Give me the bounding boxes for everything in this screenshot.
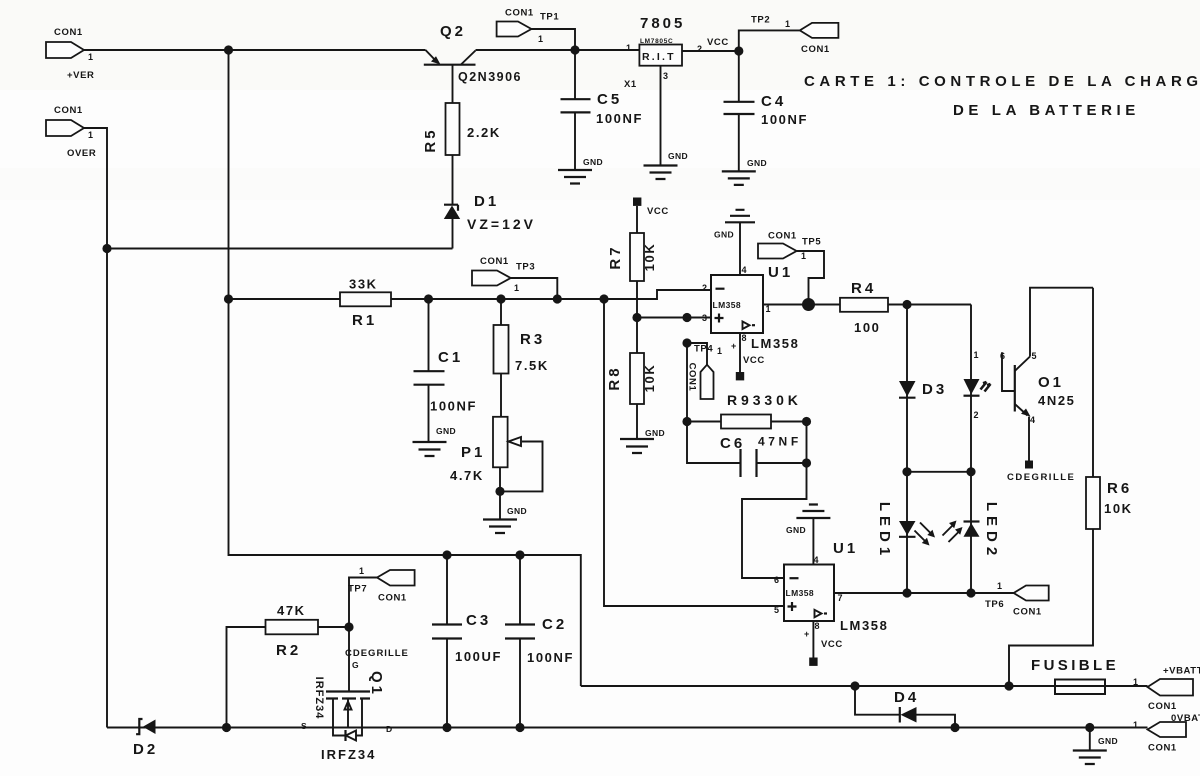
wire C6 right node to op-amp pin6 — [742, 463, 807, 578]
svg-text:VCC: VCC — [647, 206, 669, 217]
svg-text:C5: C5 — [597, 91, 622, 108]
svg-text:GND: GND — [583, 157, 603, 167]
junction node R9 right — [802, 417, 811, 426]
svg-text:7805: 7805 — [640, 15, 685, 32]
optocoupler O1 4N25 — [1000, 288, 1093, 483]
svg-text:D1: D1 — [474, 193, 499, 210]
junction node P1 wiper — [495, 487, 504, 496]
wire +VER to Q2 emitter — [84, 49, 426, 51]
junction node C2 bottom — [515, 723, 524, 732]
svg-text:TP5: TP5 — [802, 237, 821, 248]
svg-text:LM358: LM358 — [840, 618, 888, 633]
svg-text:1: 1 — [1133, 720, 1138, 730]
svg-text:100NF: 100NF — [430, 399, 477, 414]
resistor R1 — [340, 277, 391, 330]
power VCC square above R7 — [633, 198, 669, 218]
svg-text:CON1: CON1 — [505, 8, 534, 19]
svg-text:GND: GND — [436, 426, 456, 436]
wire U1 bottom pin7 output row — [834, 592, 1014, 594]
svg-text:R9330K: R9330K — [727, 392, 802, 408]
inverted ground above U1 top — [714, 210, 755, 240]
svg-text:IRFZ34: IRFZ34 — [321, 747, 376, 762]
svg-text:47NF: 47NF — [758, 435, 802, 449]
svg-text:8: 8 — [815, 621, 820, 631]
svg-text:CON1: CON1 — [768, 231, 797, 242]
svg-text:GND: GND — [747, 158, 767, 168]
svg-text:1: 1 — [801, 251, 806, 261]
ground below R8 — [620, 428, 665, 453]
junction node R2 left bottom — [222, 723, 231, 732]
svg-text:IRFZ34: IRFZ34 — [313, 677, 325, 720]
svg-text:+VER: +VER — [67, 70, 94, 81]
junction node R3 top — [496, 294, 505, 303]
svg-text:CON1: CON1 — [480, 256, 509, 267]
svg-text:+: + — [731, 341, 736, 351]
svg-text:1: 1 — [785, 19, 790, 29]
ground below C1 — [413, 426, 457, 456]
inverted ground above U1 bottom — [786, 505, 830, 536]
svg-text:R.I.T: R.I.T — [642, 51, 676, 63]
junction node C2 top — [515, 550, 524, 559]
resistor R6 — [1009, 288, 1133, 686]
resistor R8 — [606, 318, 657, 440]
svg-text:4.7K: 4.7K — [450, 468, 484, 483]
testpoint TP1 connector CON1 — [497, 8, 575, 51]
diode D1 (zener VZ=12V) — [444, 193, 536, 249]
svg-text:1: 1 — [766, 304, 771, 314]
svg-text:3: 3 — [663, 71, 668, 81]
junction node TP4 branch — [682, 338, 691, 347]
svg-text:Q2N3906: Q2N3906 — [458, 70, 522, 84]
wire D1 anode row — [107, 248, 453, 250]
wire U1 pin8 to VCC square — [731, 333, 765, 380]
svg-text:VCC: VCC — [707, 37, 729, 48]
potentiometer P1 — [450, 417, 543, 520]
svg-text:TP2: TP2 — [751, 15, 770, 26]
svg-text:100UF: 100UF — [455, 649, 502, 664]
junction node opto LED bottom — [966, 467, 975, 476]
junction node main/R1 — [224, 294, 233, 303]
svg-text:CON1: CON1 — [1013, 607, 1042, 618]
svg-text:CARTE 1: CONTROLE DE LA CHARGE: CARTE 1: CONTROLE DE LA CHARGE — [804, 73, 1200, 90]
resistor R5 — [422, 103, 501, 204]
svg-text:GND: GND — [714, 230, 734, 240]
LED LED1 — [876, 472, 935, 593]
svg-text:R3: R3 — [520, 331, 545, 348]
wire U1 pin1 output — [763, 304, 809, 306]
svg-text:2.2K: 2.2K — [467, 125, 501, 140]
wire 7805 pin3 to ground — [660, 66, 662, 166]
wire main vertical from +VER down to C3/C2 rail — [229, 50, 581, 686]
svg-text:10K: 10K — [1104, 501, 1133, 516]
wire op-amp pin3 row — [637, 317, 711, 319]
svg-text:CON1: CON1 — [54, 27, 83, 38]
testpoint TP6 connector CON1 — [985, 581, 1049, 618]
junction node R7/R8 — [632, 313, 641, 322]
optocoupler LED branch — [964, 305, 991, 472]
svg-text:4: 4 — [1030, 415, 1035, 425]
diode D4 — [855, 686, 955, 728]
resistor R9 330K — [687, 392, 807, 429]
svg-text:TP7: TP7 — [348, 584, 367, 595]
svg-text:7.5K: 7.5K — [515, 358, 549, 373]
wire U1 bottom pin8 to VCC square — [804, 621, 843, 666]
ground below C4 — [722, 158, 767, 185]
svg-text:CON1: CON1 — [686, 363, 697, 392]
testpoint TP5 connector CON1 — [758, 231, 824, 305]
capacitor C2 — [505, 555, 574, 728]
svg-text:TP4: TP4 — [694, 344, 713, 355]
svg-text:1: 1 — [974, 350, 979, 360]
junction node C3 top — [442, 550, 451, 559]
svg-text:GND: GND — [645, 428, 665, 438]
junction node R4/D3 — [902, 300, 911, 309]
junction node OVER/D1 row — [102, 244, 111, 253]
svg-text:1: 1 — [626, 43, 631, 53]
svg-text:6: 6 — [1000, 351, 1005, 361]
svg-text:3: 3 — [702, 313, 707, 323]
svg-text:C2: C2 — [542, 616, 567, 633]
capacitor C6 — [687, 422, 807, 478]
svg-text:C6: C6 — [720, 435, 745, 452]
svg-text:P1: P1 — [461, 444, 485, 461]
svg-text:100NF: 100NF — [761, 112, 808, 127]
wire TP4 node down to R9 — [686, 343, 688, 422]
svg-text:U1: U1 — [833, 540, 858, 557]
svg-text:100: 100 — [854, 320, 881, 335]
svg-text:LM7805C: LM7805C — [640, 38, 673, 45]
resistor R3 — [494, 299, 549, 417]
svg-text:8: 8 — [742, 333, 747, 343]
svg-text:CON1: CON1 — [378, 593, 407, 604]
connector CON1 0VBATT — [1133, 713, 1200, 754]
svg-text:4: 4 — [742, 265, 747, 275]
svg-text:CON1: CON1 — [54, 105, 83, 116]
svg-text:CDEGRILLE: CDEGRILLE — [345, 648, 409, 659]
resistor R7 — [607, 206, 657, 318]
svg-text:R2: R2 — [276, 642, 301, 659]
svg-text:S: S — [301, 721, 307, 731]
ground below 7805 — [644, 151, 689, 179]
wire OVER down left side to bottom rail — [84, 128, 107, 728]
svg-text:FUSIBLE: FUSIBLE — [1031, 657, 1119, 674]
junction node LED1 bottom — [902, 588, 911, 597]
junction node C3 bottom — [442, 723, 451, 732]
svg-text:C4: C4 — [761, 93, 786, 110]
ground at 0VBATT rail — [1073, 728, 1118, 765]
junction node R6 net/fuse rail — [1004, 681, 1013, 690]
fuse FUSIBLE — [1031, 657, 1119, 694]
svg-text:VCC: VCC — [743, 355, 765, 366]
svg-text:47K: 47K — [277, 603, 306, 618]
svg-text:C3: C3 — [466, 612, 491, 629]
svg-text:TP1: TP1 — [540, 12, 559, 23]
svg-text:GND: GND — [786, 525, 806, 535]
svg-text:7: 7 — [838, 593, 843, 603]
op-amp U1 (bottom) LM358 — [774, 540, 888, 633]
svg-text:TP3: TP3 — [516, 262, 535, 273]
testpoint TP7 connector CON1 — [348, 566, 415, 627]
svg-text:LM358: LM358 — [713, 300, 741, 310]
junction node R9 left — [682, 417, 691, 426]
diode D3 — [899, 305, 947, 472]
svg-text:CON1: CON1 — [1148, 743, 1177, 754]
svg-text:VCC: VCC — [821, 639, 843, 650]
junction node U1 output/TP5 — [802, 298, 815, 311]
svg-text:+: + — [804, 629, 809, 639]
svg-text:2: 2 — [697, 44, 702, 54]
junction node pin5 branch — [599, 294, 608, 303]
wire Q2 collector to 7805 — [476, 49, 640, 51]
LED LED2 — [943, 472, 1001, 593]
ground below P1 — [483, 506, 527, 533]
svg-text:DE LA BATTERIE: DE LA BATTERIE — [953, 102, 1140, 119]
svg-text:33K: 33K — [349, 277, 378, 292]
svg-text:100NF: 100NF — [596, 111, 643, 126]
svg-text:LM358: LM358 — [751, 336, 799, 351]
capacitor C4 — [724, 51, 809, 171]
capacitor C5 — [561, 50, 644, 170]
wire U1 bottom pin4 to inverted ground — [812, 518, 814, 565]
svg-text:R4: R4 — [851, 280, 876, 297]
svg-text:X1: X1 — [624, 79, 637, 90]
connector CON1 +VBATT — [1133, 666, 1200, 713]
svg-text:1: 1 — [88, 130, 93, 140]
junction node +VER/main — [224, 45, 233, 54]
wire 7805 pin2 VCC — [682, 37, 739, 51]
svg-text:5: 5 — [1032, 351, 1037, 361]
capacitor C3 — [432, 555, 502, 728]
junction node R2/TP7 — [344, 622, 353, 631]
junction node C1 top — [424, 294, 433, 303]
svg-text:R1: R1 — [352, 312, 377, 329]
diode D2 — [133, 719, 158, 758]
ground below C5 — [558, 157, 603, 184]
capacitor C1 — [414, 299, 478, 442]
svg-text:1: 1 — [359, 566, 364, 576]
junction node D4 right bottom — [950, 723, 959, 732]
connector CON1 +VER — [46, 27, 94, 81]
svg-text:VZ=12V: VZ=12V — [467, 216, 536, 232]
svg-text:O1: O1 — [1038, 374, 1064, 391]
svg-text:10K: 10K — [642, 364, 657, 393]
svg-text:2: 2 — [702, 283, 707, 293]
svg-text:LED2: LED2 — [983, 502, 1000, 560]
svg-text:CDEGRILLE: CDEGRILLE — [1007, 472, 1075, 483]
svg-text:U1: U1 — [768, 264, 793, 281]
svg-text:10K: 10K — [642, 243, 657, 272]
junction node D4 left — [850, 681, 859, 690]
svg-text:GND: GND — [507, 506, 527, 516]
wire bottom rail C — [107, 727, 1148, 729]
regulator U 7805 — [624, 15, 702, 90]
svg-text:LED1: LED1 — [876, 502, 893, 560]
junction node TP1/C5 — [570, 45, 579, 54]
svg-text:D2: D2 — [133, 741, 158, 758]
svg-text:1: 1 — [717, 346, 722, 356]
svg-text:D4: D4 — [894, 689, 919, 706]
svg-text:6: 6 — [774, 575, 779, 585]
testpoint TP3 connector CON1 — [472, 256, 557, 299]
svg-text:1: 1 — [997, 581, 1002, 591]
junction node LED2 bottom — [966, 588, 975, 597]
wire LED row join — [907, 471, 971, 473]
svg-text:G: G — [352, 660, 359, 670]
svg-text:TP6: TP6 — [985, 599, 1004, 610]
resistor R2 — [227, 603, 350, 728]
svg-text:GND: GND — [1098, 736, 1118, 746]
svg-text:D: D — [386, 724, 393, 734]
svg-text:CON1: CON1 — [1148, 701, 1177, 712]
svg-text:OVER: OVER — [67, 148, 96, 159]
svg-text:R8: R8 — [606, 365, 623, 390]
svg-text:4N25: 4N25 — [1038, 393, 1075, 408]
svg-text:1: 1 — [88, 52, 93, 62]
wire main row R1 to op-amp pin2 — [229, 290, 712, 299]
svg-text:R7: R7 — [607, 244, 624, 269]
junction node TP3 — [553, 294, 562, 303]
connector CON1 OVER — [46, 105, 96, 159]
junction node D3 bottom — [902, 467, 911, 476]
svg-text:2: 2 — [974, 410, 979, 420]
wire U1 pin4 to inverted ground — [739, 222, 741, 275]
wire main row to op-amp pin5 — [604, 299, 784, 606]
svg-text:+VBATT: +VBATT — [1163, 666, 1200, 677]
testpoint TP4 connector CON1 pointing down — [686, 343, 722, 399]
junction node pin3/TP4 — [682, 313, 691, 322]
svg-text:1: 1 — [538, 34, 543, 44]
svg-text:CON1: CON1 — [801, 44, 830, 55]
svg-text:D3: D3 — [922, 381, 947, 398]
transistor Q2 — [424, 23, 522, 103]
svg-text:1: 1 — [1133, 677, 1138, 687]
svg-text:R6: R6 — [1107, 480, 1132, 497]
svg-text:R5: R5 — [422, 127, 439, 152]
mosfet Q1 IRFZ34 — [301, 627, 409, 762]
svg-text:0VBATT: 0VBATT — [1171, 713, 1200, 724]
svg-text:Q2: Q2 — [440, 23, 466, 40]
svg-text:LM358: LM358 — [786, 588, 814, 598]
junction node VCC/C4 — [734, 46, 743, 55]
op-amp U1 (top) LM358 — [702, 264, 799, 351]
resistor R4 — [809, 280, 972, 335]
wire bottom rail B (fuse rail) — [581, 685, 1148, 687]
junction node GND rail — [1085, 723, 1094, 732]
svg-text:100NF: 100NF — [527, 650, 574, 665]
testpoint TP2 connector CON1 — [739, 15, 839, 56]
svg-text:Q1: Q1 — [368, 671, 385, 697]
junction node C6 right — [802, 458, 811, 467]
svg-text:GND: GND — [668, 151, 688, 161]
svg-text:C1: C1 — [438, 349, 463, 366]
svg-text:1: 1 — [514, 283, 519, 293]
